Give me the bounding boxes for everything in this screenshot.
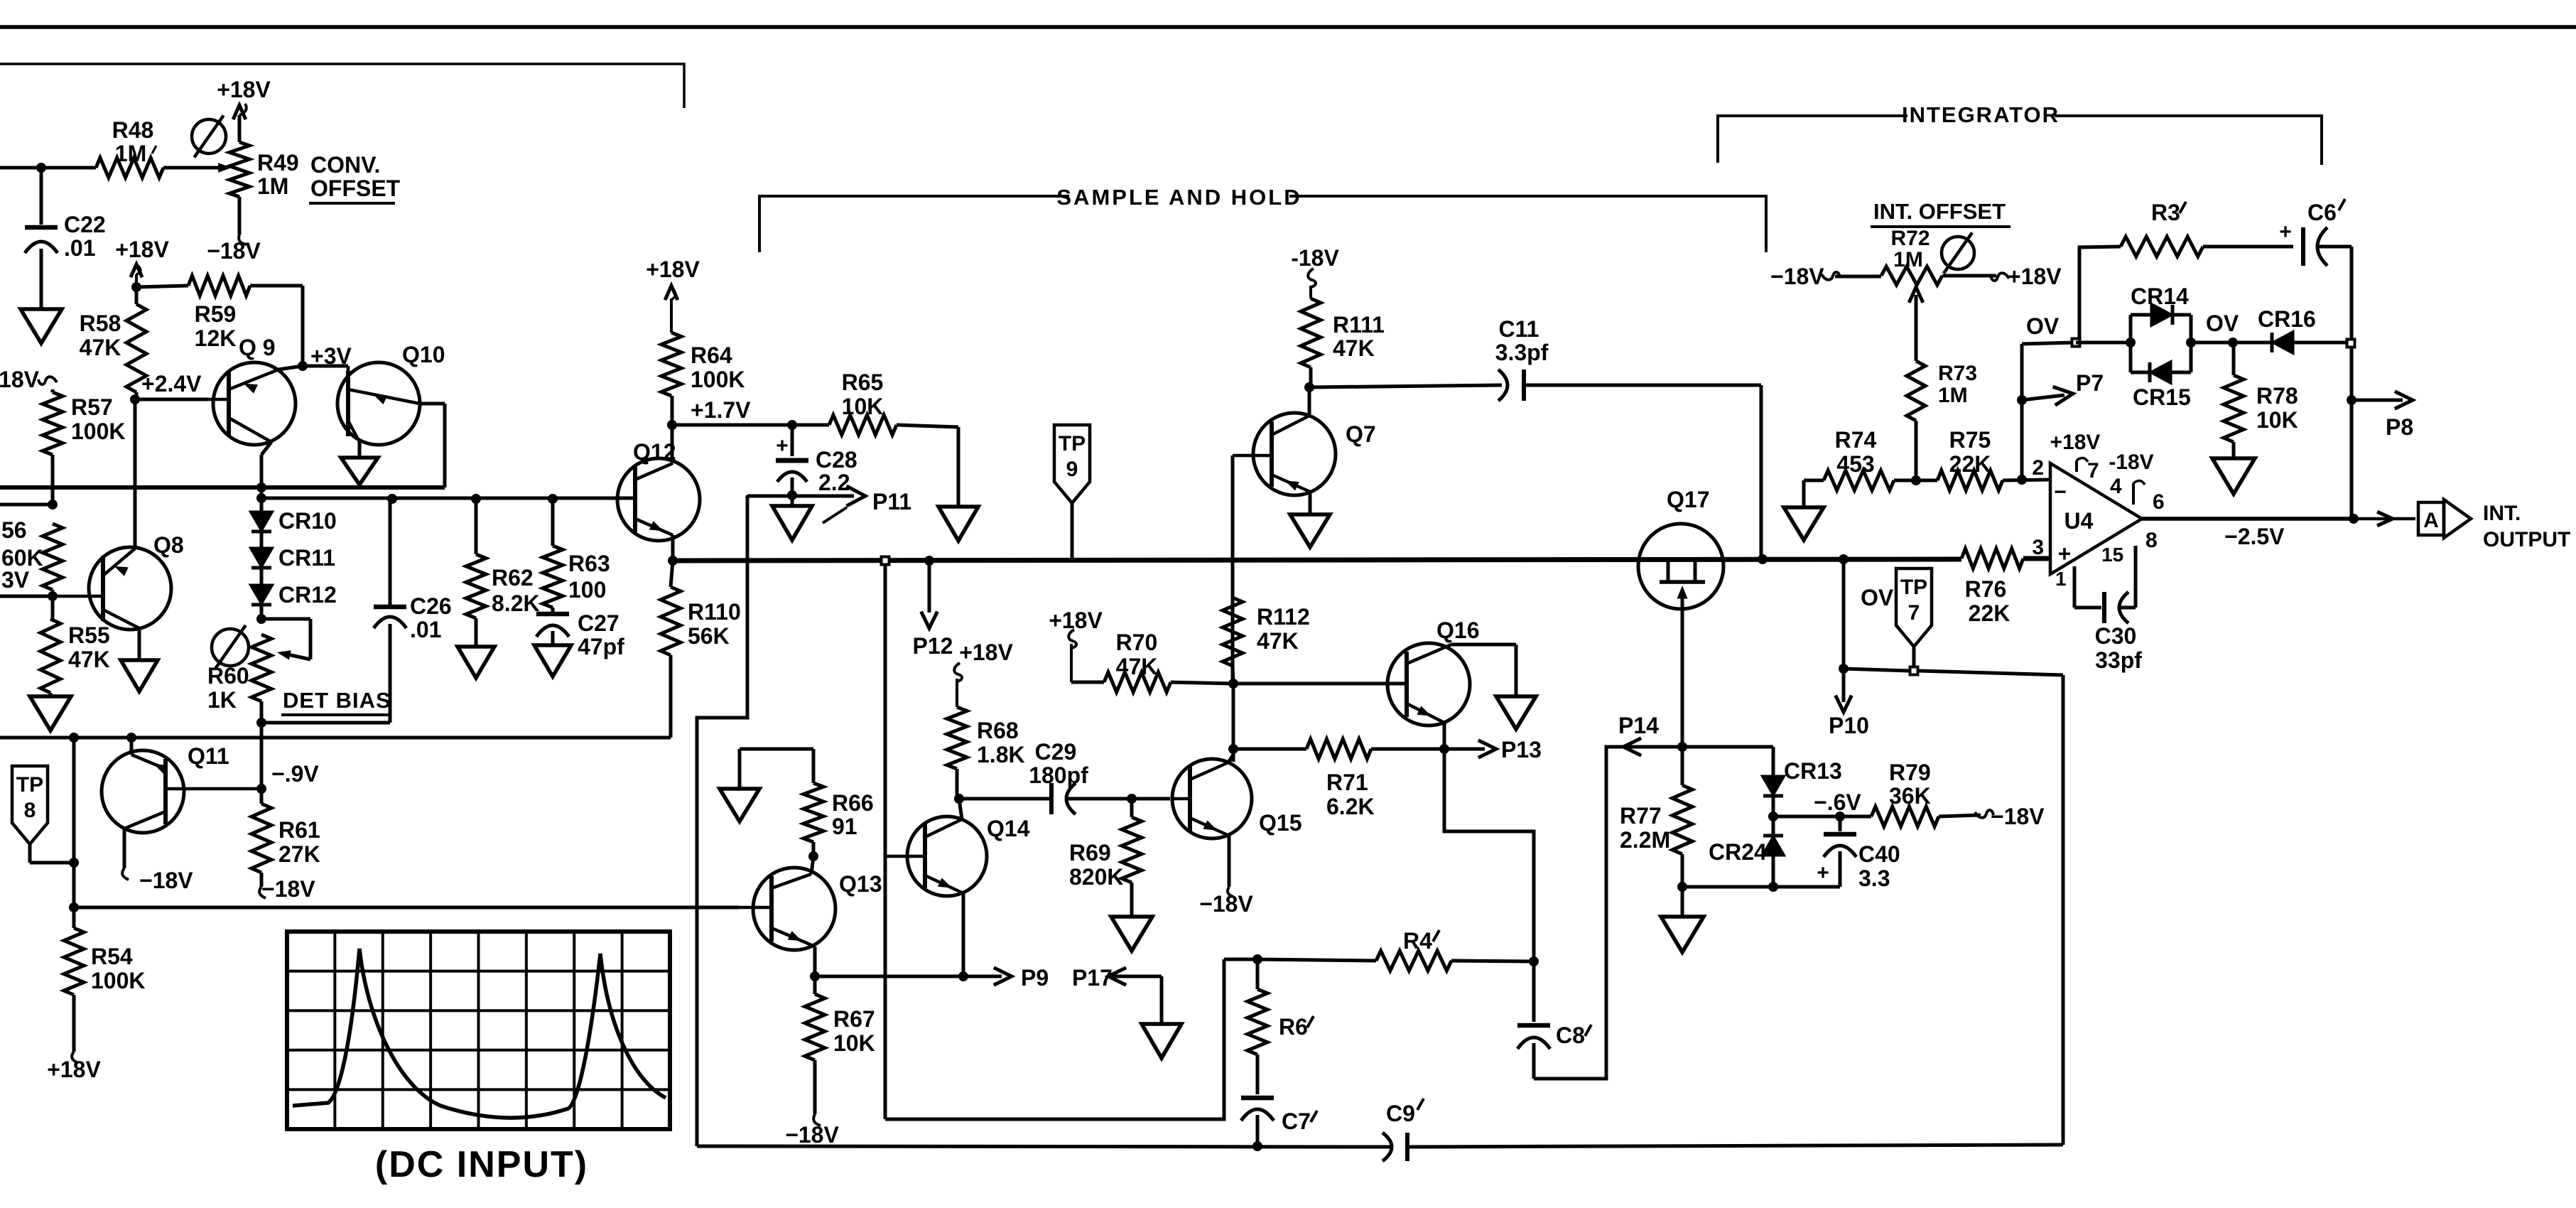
svg-text:Q 9: Q 9 — [239, 335, 276, 360]
svg-text:(DC INPUT): (DC INPUT) — [375, 1144, 588, 1185]
capacitor C29 — [959, 797, 1049, 801]
resistor R6' — [1256, 959, 1260, 989]
svg-text:R77: R77 — [1620, 803, 1662, 829]
wire — [123, 829, 126, 868]
svg-text:SAMPLE AND HOLD: SAMPLE AND HOLD — [1056, 185, 1301, 210]
capacitor C30 — [2073, 566, 2077, 608]
wire — [885, 959, 1224, 1119]
svg-text:+1.7V: +1.7V — [691, 397, 751, 423]
svg-text:P7: P7 — [2076, 370, 2104, 396]
resistor R4' — [1257, 959, 1376, 961]
svg-text:C22: C22 — [64, 212, 106, 237]
potentiometer R72 — [1835, 275, 1881, 279]
svg-text:8.2K: 8.2K — [492, 590, 540, 616]
diode CR24 — [1772, 816, 1775, 836]
svg-text:C6: C6 — [2307, 200, 2337, 225]
test point TP9 — [1054, 425, 1090, 503]
svg-text:TP: TP — [1900, 576, 1927, 599]
ground — [1111, 917, 1152, 951]
node oscilloscope graphic — [287, 932, 670, 1129]
svg-text:R48: R48 — [112, 117, 154, 143]
resistor R110 — [671, 561, 673, 587]
svg-text:CR13: CR13 — [1784, 758, 1842, 784]
svg-text:TP: TP — [16, 773, 43, 797]
wire — [261, 442, 271, 455]
transistor Q17 — [1638, 524, 1723, 609]
node OV — [2022, 343, 2075, 344]
svg-text:R112: R112 — [1257, 604, 1310, 630]
resistor R3' — [2076, 247, 2121, 343]
wire — [1233, 682, 1407, 686]
svg-text:P9: P9 — [1021, 965, 1049, 991]
svg-text:DET BIAS: DET BIAS — [283, 688, 391, 713]
wire — [256, 718, 266, 728]
svg-text:1M: 1M — [1893, 248, 1923, 271]
svg-text:OV: OV — [2206, 311, 2239, 336]
svg-text:R110: R110 — [688, 599, 741, 625]
capacitor C9' — [1382, 1133, 1392, 1161]
ground — [1784, 507, 1824, 540]
svg-text:P11: P11 — [872, 489, 911, 514]
wire — [303, 365, 348, 368]
svg-text:CR16: CR16 — [2258, 306, 2316, 332]
svg-text:+18V: +18V — [646, 257, 700, 282]
svg-text:3V: 3V — [1, 567, 30, 593]
svg-text:1: 1 — [2055, 568, 2067, 590]
ground — [1496, 696, 1536, 729]
diode CR11 — [260, 532, 264, 549]
svg-text:+2.4V: +2.4V — [141, 371, 202, 397]
svg-text:C8: C8 — [1556, 1023, 1585, 1048]
svg-text:R76: R76 — [1965, 576, 2007, 602]
svg-text:56: 56 — [1, 517, 27, 543]
svg-text:7: 7 — [2087, 459, 2099, 482]
capacitor C7' — [1241, 1096, 1274, 1101]
wire — [1232, 684, 1235, 762]
svg-text:CR15: CR15 — [2133, 384, 2191, 410]
svg-text:33pf: 33pf — [2095, 647, 2142, 673]
resistor R68 — [947, 707, 967, 769]
wire — [673, 559, 1961, 561]
resistor R59 — [136, 286, 188, 287]
svg-text:R79: R79 — [1889, 760, 1931, 785]
resistor R76 — [1961, 549, 2023, 568]
wire — [1760, 385, 1763, 559]
ground — [138, 628, 141, 660]
ground — [791, 495, 794, 506]
ground — [2212, 458, 2255, 494]
diode CR16 — [2233, 341, 2272, 345]
svg-text:R61: R61 — [278, 817, 320, 843]
svg-text:R3: R3 — [2151, 200, 2180, 225]
svg-text:100K: 100K — [691, 367, 745, 392]
transistor Q10 — [337, 362, 420, 445]
svg-text:10K: 10K — [2256, 407, 2298, 433]
wire — [1224, 958, 1257, 961]
svg-text:820K: 820K — [1069, 864, 1124, 890]
svg-text:−18V: −18V — [1991, 804, 2045, 829]
svg-text:C29: C29 — [1035, 739, 1077, 765]
wire — [135, 398, 207, 401]
svg-text:3.3: 3.3 — [1858, 865, 1890, 891]
capacitor C11 — [1309, 385, 1502, 387]
svg-text:P13: P13 — [1501, 737, 1542, 762]
wire — [278, 366, 303, 370]
svg-text:R60: R60 — [207, 663, 249, 689]
svg-text:−.6V: −.6V — [1814, 789, 1861, 815]
svg-text:91: 91 — [832, 814, 857, 839]
wire — [1682, 885, 1840, 889]
svg-text:Q15: Q15 — [1259, 810, 1301, 836]
capacitor C22 — [40, 168, 43, 225]
ground — [30, 696, 71, 730]
svg-text:R78: R78 — [2256, 383, 2298, 409]
wire — [1132, 797, 1170, 801]
svg-text:R66: R66 — [832, 790, 874, 816]
wire — [2142, 517, 2354, 521]
svg-text:+18V: +18V — [2008, 264, 2062, 289]
test point TP7 — [1896, 568, 1932, 647]
svg-text:+: + — [1817, 861, 1829, 885]
resistor R111 — [1301, 298, 1321, 367]
svg-text:CR12: CR12 — [278, 582, 337, 608]
node P9 — [815, 975, 1002, 978]
svg-text:47K: 47K — [1333, 335, 1375, 361]
wire — [72, 738, 76, 907]
svg-text:R73: R73 — [1938, 362, 1977, 385]
svg-text:Q14: Q14 — [987, 816, 1030, 841]
svg-text:-18V: -18V — [1291, 245, 1339, 271]
svg-text:R71: R71 — [1326, 770, 1368, 795]
transistor Q8 — [89, 547, 171, 630]
svg-text:R67: R67 — [833, 1006, 875, 1032]
svg-text:22K: 22K — [1949, 451, 1991, 477]
svg-text:7: 7 — [1908, 601, 1920, 625]
svg-text:.01: .01 — [64, 235, 95, 261]
wire — [2023, 556, 2050, 561]
svg-text:47K: 47K — [1116, 654, 1158, 679]
svg-text:A: A — [2423, 509, 2439, 532]
wire — [134, 399, 137, 549]
svg-text:8: 8 — [24, 799, 36, 822]
svg-text:27K: 27K — [278, 841, 320, 867]
wire — [1443, 723, 1446, 749]
test point TP8 — [12, 766, 48, 844]
node INTEGRATOR bracket — [1718, 116, 1907, 163]
svg-text:+18V: +18V — [0, 367, 40, 392]
svg-text:INT.: INT. — [2483, 502, 2521, 525]
wire — [1451, 643, 1516, 647]
wire — [1842, 559, 1846, 669]
svg-text:100: 100 — [568, 577, 606, 603]
svg-text:+: + — [2058, 541, 2072, 566]
svg-text:CR11: CR11 — [278, 545, 335, 571]
op-amp U4 — [2050, 463, 2142, 574]
node R73 junction — [1911, 475, 1921, 485]
wire — [1231, 455, 1235, 684]
svg-text:TP: TP — [1059, 432, 1086, 455]
potentiometer R60 — [260, 605, 264, 619]
resistor R65 — [792, 424, 829, 427]
svg-text:1M: 1M — [1938, 384, 1968, 407]
svg-text:47K: 47K — [68, 647, 110, 672]
wire — [0, 595, 53, 598]
resistor R78 — [2232, 343, 2236, 375]
svg-text:100K: 100K — [71, 419, 126, 444]
svg-text:15: 15 — [2101, 544, 2123, 566]
transistor Q13 — [753, 868, 835, 950]
capacitor C28 — [787, 420, 797, 430]
svg-text:1M: 1M — [115, 141, 146, 166]
resistor R75 — [1916, 479, 1937, 482]
resistor R48 — [96, 158, 163, 178]
svg-text:3.3pf: 3.3pf — [1495, 340, 1549, 365]
svg-text:47K: 47K — [1257, 628, 1299, 654]
wire — [0, 485, 445, 490]
node P8 — [2347, 395, 2356, 405]
wire — [0, 64, 684, 108]
wire — [1308, 387, 1311, 416]
potentiometer R49 — [229, 142, 249, 197]
node C8' junction — [1529, 956, 1539, 966]
svg-text:Q10: Q10 — [402, 342, 445, 367]
svg-text:R55: R55 — [68, 622, 110, 648]
svg-text:CR10: CR10 — [278, 508, 337, 534]
node P11 — [747, 495, 854, 498]
svg-text:R75: R75 — [1949, 427, 1991, 453]
wire — [420, 402, 445, 406]
svg-text:CR24: CR24 — [1709, 839, 1767, 865]
svg-text:CONV.: CONV. — [310, 152, 380, 178]
wire — [697, 1146, 1391, 1147]
wire — [672, 424, 792, 427]
diode CR10 — [260, 498, 264, 512]
node C11 junction — [1304, 382, 1314, 392]
svg-text:−18V: −18V — [1199, 891, 1253, 917]
svg-text:6.2K: 6.2K — [1326, 794, 1375, 819]
svg-text:Q12: Q12 — [633, 439, 676, 465]
svg-text:R49: R49 — [257, 150, 299, 176]
svg-text:47K: 47K — [80, 335, 121, 360]
resistor R63 — [551, 499, 555, 546]
svg-text:453: 453 — [1836, 451, 1874, 477]
svg-text:OUTPUT: OUTPUT — [2483, 528, 2570, 551]
capacitor C27 — [551, 608, 555, 613]
svg-text:C30: C30 — [2095, 623, 2137, 649]
svg-text:P10: P10 — [1829, 713, 1869, 738]
ground — [938, 507, 978, 541]
transistor Q16 — [1387, 643, 1470, 726]
svg-text:R69: R69 — [1069, 840, 1111, 865]
wire — [2350, 247, 2354, 338]
node P13 — [1444, 748, 1485, 751]
svg-text:P17: P17 — [1072, 965, 1113, 991]
capacitor C8' — [1532, 961, 1536, 1022]
wire — [74, 906, 739, 910]
wire — [163, 166, 224, 170]
svg-text:R6: R6 — [1279, 1014, 1308, 1040]
transistor Q7 — [1253, 413, 1336, 495]
svg-text:R111: R111 — [1333, 312, 1385, 338]
svg-text:.01: .01 — [410, 617, 441, 642]
wire — [2062, 675, 2065, 1145]
svg-text:Q13: Q13 — [839, 871, 882, 897]
svg-text:+18V: +18V — [1049, 608, 1103, 633]
svg-text:R65: R65 — [842, 370, 884, 395]
svg-text:+18V: +18V — [47, 1057, 101, 1082]
ground — [720, 789, 759, 821]
svg-text:1M: 1M — [257, 173, 288, 199]
wire — [697, 495, 747, 1146]
svg-text:3: 3 — [2032, 536, 2044, 559]
svg-text:CR14: CR14 — [2131, 284, 2189, 309]
transistor Q15 — [1172, 759, 1252, 838]
svg-text:Q16: Q16 — [1436, 618, 1479, 643]
svg-text:R54: R54 — [91, 944, 133, 969]
ground — [458, 647, 494, 678]
svg-text:R4: R4 — [1403, 928, 1432, 954]
svg-text:C9: C9 — [1386, 1101, 1415, 1126]
svg-text:100K: 100K — [91, 968, 146, 993]
svg-text:6: 6 — [2153, 490, 2165, 514]
resistor R74 — [1802, 480, 1806, 507]
diode CR12 — [260, 568, 264, 586]
svg-text:INTEGRATOR: INTEGRATOR — [1902, 102, 2060, 127]
resistor R61 — [260, 789, 264, 804]
wire — [2020, 344, 2024, 480]
wire — [260, 723, 264, 789]
diode CR13 — [1682, 745, 1773, 749]
resistor R79 — [1871, 807, 1939, 826]
svg-text:Q11: Q11 — [188, 743, 229, 769]
node +2.4V — [130, 394, 140, 404]
svg-text:36K: 36K — [1889, 783, 1931, 809]
svg-text:Q7: Q7 — [1346, 421, 1376, 447]
node +1.7V — [667, 420, 677, 430]
svg-text:P14: P14 — [1618, 713, 1659, 738]
svg-text:−18V: −18V — [785, 1122, 839, 1148]
svg-text:-18V: -18V — [2109, 451, 2153, 474]
svg-text:R64: R64 — [691, 343, 732, 368]
resistor R55 — [51, 590, 55, 596]
svg-text:C11: C11 — [1499, 316, 1539, 342]
transistor Q9 — [213, 362, 296, 445]
svg-text:R72: R72 — [1890, 227, 1930, 250]
svg-text:12K: 12K — [195, 325, 237, 351]
resistor R64 — [661, 333, 681, 396]
svg-text:R68: R68 — [977, 718, 1019, 743]
resistor R58 — [131, 282, 141, 292]
resistor R56 — [43, 524, 63, 590]
wire — [1773, 815, 1871, 819]
svg-text:−: − — [2054, 480, 2067, 504]
svg-text:U4: U4 — [2064, 508, 2094, 534]
svg-text:2.2M: 2.2M — [1620, 827, 1670, 853]
svg-text:R57: R57 — [71, 394, 113, 420]
svg-text:R62: R62 — [492, 565, 534, 590]
svg-text:C40: C40 — [1858, 841, 1900, 867]
wire — [671, 535, 675, 561]
resistor R66 — [740, 748, 813, 751]
transistor Q12 — [617, 458, 700, 541]
svg-text:47pf: 47pf — [578, 634, 624, 659]
svg-text:10K: 10K — [842, 394, 884, 419]
svg-text:R58: R58 — [80, 311, 121, 336]
svg-text:P12: P12 — [913, 633, 953, 659]
resistor R67 — [813, 976, 817, 994]
resistor R112 — [1223, 598, 1243, 666]
svg-text:2.2: 2.2 — [818, 470, 850, 495]
svg-text:R74: R74 — [1835, 427, 1877, 453]
svg-text:9: 9 — [1066, 458, 1078, 481]
svg-text:Q8: Q8 — [153, 532, 184, 558]
svg-text:C26: C26 — [410, 593, 452, 619]
wire — [261, 497, 635, 500]
node Q14 collector — [954, 794, 964, 804]
wire — [1228, 755, 1233, 762]
svg-text:−18V: −18V — [261, 876, 315, 902]
wire — [0, 736, 671, 740]
wire — [811, 856, 813, 874]
node P12 — [924, 556, 934, 566]
resistor R70 — [1071, 681, 1104, 684]
ground — [1309, 492, 1312, 514]
node pin2 junction — [2017, 475, 2027, 485]
transistor Q14 — [907, 816, 987, 896]
wire — [0, 25, 2576, 29]
svg-text:2: 2 — [2032, 456, 2044, 480]
node SAMPLE AND HOLD bracket — [759, 196, 1069, 252]
node R70/R112 junction — [1228, 679, 1238, 689]
svg-text:56K: 56K — [688, 623, 730, 649]
node P14 — [1534, 747, 1681, 1079]
wire — [671, 425, 674, 463]
ground — [534, 645, 571, 676]
node R69 junction — [1127, 794, 1137, 804]
wire — [130, 738, 134, 755]
capacitor C40 — [1839, 816, 1842, 831]
svg-text:10K: 10K — [833, 1030, 875, 1056]
resistor R77 — [1681, 747, 1684, 785]
svg-text:−18V: −18V — [1770, 264, 1824, 289]
node P10 — [1842, 669, 1846, 702]
svg-text:+: + — [2279, 220, 2292, 244]
resistor R57 — [51, 389, 55, 392]
node Q13/Q14 base node — [808, 851, 818, 861]
resistor R62 — [475, 499, 478, 554]
svg-text:+18V: +18V — [959, 640, 1013, 665]
svg-text:4: 4 — [2110, 475, 2122, 498]
transistor Q11 — [102, 750, 184, 833]
svg-text:Q17: Q17 — [1667, 487, 1709, 512]
svg-text:+18V: +18V — [115, 237, 169, 262]
resistor R73 — [1915, 295, 1918, 334]
svg-text:1K: 1K — [207, 687, 237, 713]
svg-text:INT. OFFSET: INT. OFFSET — [1873, 199, 2006, 224]
node +3V — [298, 361, 308, 371]
wire — [1444, 749, 1534, 961]
wire — [594, 497, 635, 500]
svg-text:C27: C27 — [578, 610, 619, 636]
ground — [358, 442, 362, 458]
ground — [21, 309, 62, 343]
svg-text:R59: R59 — [195, 301, 237, 327]
svg-text:C7: C7 — [1282, 1109, 1311, 1134]
node Q17 gate junction — [1677, 742, 1687, 752]
wire — [880, 556, 891, 566]
svg-text:−2.5V: −2.5V — [2224, 524, 2285, 549]
wire — [2191, 341, 2233, 345]
